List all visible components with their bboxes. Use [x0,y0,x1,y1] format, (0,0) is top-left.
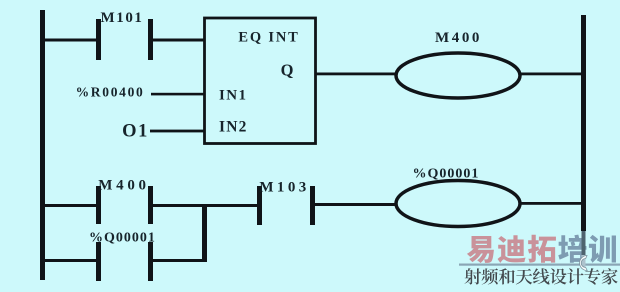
wire %R00400 to IN1 [151,93,204,96]
svg-text:EQ INT: EQ INT [238,30,299,46]
svg-text:%R00400: %R00400 [76,85,145,100]
contact M101 [96,19,101,60]
watermark subtitle char 家 [602,268,618,284]
watermark subtitle char 射 [465,268,482,284]
right power rail [581,15,586,231]
wire M101 to EQ INT block [153,39,204,42]
watermark title char 训 [589,235,616,263]
watermark subtitle char 和 [499,268,515,284]
watermark title char 迪 [498,235,526,263]
wire M103 to coil %Q00001 [315,203,396,206]
svg-text:IN1: IN1 [219,88,247,104]
coil M400 [396,53,520,98]
svg-text:%Q00001: %Q00001 [89,231,156,246]
watermark underline [459,264,620,266]
watermark subtitle char 计 [567,268,583,284]
svg-text:M400: M400 [435,30,482,46]
wire coil M400 to right rail [520,73,581,76]
watermark subtitle char 设 [550,268,566,284]
watermark title char 拓 [528,235,556,263]
contact M103 [257,186,262,225]
wire %Q00001 contact to junction [153,259,207,262]
contact M400 [96,186,101,224]
junction vertical wire [202,204,207,262]
wire rung1 left rail to M101 [45,39,96,42]
svg-text:M400: M400 [98,178,149,194]
svg-text:O1: O1 [122,122,149,142]
parallel branch wire left rail to %Q00001 contact [45,259,96,262]
svg-text:IN2: IN2 [219,119,248,136]
contact %Q00001 [96,242,101,281]
wire M400 contact to M103 contact [153,204,257,207]
mouse cursor artifact [580,256,588,271]
watermark subtitle char 线 [533,268,550,284]
watermark title char 培 [558,235,586,263]
watermark subtitle char 天 [516,269,532,285]
function block EQ INT [205,18,316,144]
coil %Q00001 [396,181,520,227]
watermark subtitle char 频 [482,268,498,284]
wire O1 to IN2 [150,130,204,133]
wire Q output to coil M400 [315,73,396,76]
wire coil %Q00001 to right rail [520,202,581,205]
svg-text:Q: Q [281,61,294,80]
watermark title char 易 [467,236,494,263]
watermark subtitle char 专 [584,268,600,285]
right rail faded segment over watermark [582,231,586,255]
svg-text:%Q00001: %Q00001 [413,167,480,182]
wire rung2 left rail to M400 contact [45,204,96,207]
svg-text:M103: M103 [259,180,309,196]
svg-text:M101: M101 [100,10,143,26]
left power rail [40,10,45,280]
